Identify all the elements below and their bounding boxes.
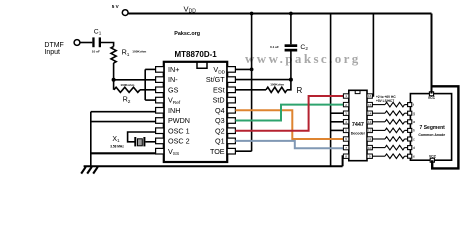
svg-text:Decoder: Decoder bbox=[351, 132, 366, 136]
notch bbox=[197, 62, 207, 68]
pin stub display d bbox=[408, 146, 412, 150]
wire VCC loop around display bbox=[432, 86, 459, 168]
svg-text:Q3: Q3 bbox=[215, 116, 225, 125]
wire INH to ground bbox=[91, 111, 156, 113]
pin stub left 5 INH bbox=[156, 108, 164, 114]
wire node down to R2 bbox=[113, 80, 115, 90]
svg-text:St/GT: St/GT bbox=[206, 75, 225, 84]
svg-text:3.58 MHz: 3.58 MHz bbox=[110, 144, 124, 148]
wire ground vertical bbox=[90, 112, 92, 167]
svg-text:0.1 uF: 0.1 uF bbox=[270, 45, 279, 49]
wire node to IN- bbox=[114, 79, 156, 81]
ground bbox=[81, 167, 86, 174]
wire ground bus bbox=[84, 165, 343, 167]
svg-text:Input: Input bbox=[44, 49, 60, 56]
svg-text:g: g bbox=[413, 112, 415, 116]
wire to VRef bbox=[145, 99, 156, 101]
svg-text:d: d bbox=[413, 146, 415, 150]
svg-text:13: 13 bbox=[368, 120, 372, 124]
resistor segment f bbox=[372, 104, 385, 106]
node VDD supply rail bbox=[128, 13, 431, 15]
wire vertical IN+/IN-/GS/VRef tie bbox=[144, 69, 146, 100]
svg-text:100Kohm: 100Kohm bbox=[120, 83, 134, 87]
wire PWDN to ground bbox=[91, 121, 156, 123]
svg-text:MT8870D-1: MT8870D-1 bbox=[175, 50, 218, 59]
svg-text:10 nF: 10 nF bbox=[92, 50, 100, 54]
pin stub display f bbox=[408, 103, 412, 107]
wire Q4 orange bbox=[235, 110, 343, 139]
pin stub right 14 Q4 bbox=[227, 108, 235, 114]
wire bus to 7447 pin8 bbox=[342, 156, 345, 166]
pin stub 7447-7 bbox=[343, 145, 348, 149]
resistor R2 bbox=[114, 87, 140, 92]
wire input to C1 bbox=[80, 42, 92, 44]
svg-text:ESt: ESt bbox=[213, 85, 225, 94]
resistor R1 bbox=[111, 47, 116, 64]
svg-text:a: a bbox=[413, 120, 415, 124]
pin stub display b bbox=[408, 128, 412, 132]
wire vertical VDD/TOE bbox=[251, 14, 253, 152]
wire R to node bbox=[287, 80, 291, 90]
wire vertical rail to 7447 LT/BI/RBI bbox=[330, 14, 332, 167]
wire C2 to St/GT node bbox=[290, 52, 292, 80]
wire crystal to OSC2 bbox=[145, 141, 155, 143]
svg-text:14: 14 bbox=[368, 111, 372, 115]
pin stub display VCC bottom bbox=[430, 158, 434, 162]
wire to 7447 pin4 bbox=[331, 121, 344, 123]
wire to IN+ bbox=[145, 68, 156, 70]
pin stub left 2 IN- bbox=[156, 77, 164, 83]
node rail junction B bbox=[289, 12, 293, 16]
pin stub 7447-9 bbox=[367, 154, 372, 158]
svg-text:Q1: Q1 bbox=[215, 137, 225, 146]
svg-text:15: 15 bbox=[368, 103, 372, 107]
pin stub display g bbox=[408, 111, 412, 115]
wire R2 to bus bbox=[140, 89, 145, 91]
svg-text:11: 11 bbox=[368, 137, 371, 141]
wire to 7447 pin3 bbox=[331, 112, 344, 114]
svg-text:VCC: VCC bbox=[429, 154, 437, 158]
pin stub 7447-4 bbox=[343, 120, 348, 124]
wire OSC1 loop bbox=[128, 132, 156, 142]
svg-text:PWDN: PWDN bbox=[168, 116, 190, 125]
svg-text:OSC 1: OSC 1 bbox=[168, 126, 190, 135]
pin stub 7447-2 bbox=[343, 102, 348, 106]
svg-text:10: 10 bbox=[368, 146, 372, 150]
svg-text:+5V LS/HCT: +5V LS/HCT bbox=[376, 99, 394, 103]
node St/GT junction bbox=[289, 78, 293, 82]
wire rail drop to display VCC bbox=[431, 14, 433, 94]
pin stub right 13 Q3 bbox=[227, 118, 235, 124]
terminal 5V bbox=[122, 10, 128, 16]
svg-text:b: b bbox=[413, 129, 415, 133]
pin stub right 10 TOE bbox=[227, 148, 235, 154]
pin stub display c bbox=[408, 137, 412, 141]
wire St/GT bbox=[235, 79, 291, 81]
capacitor C2 0.1uF bbox=[285, 44, 298, 47]
capacitor C1 bbox=[92, 37, 94, 47]
svg-text:StD: StD bbox=[213, 96, 225, 105]
pin stub left 4 VREF bbox=[156, 97, 164, 103]
wire VDD pin to rail bbox=[235, 68, 251, 70]
resistor R 100Kohm bbox=[266, 87, 287, 92]
svg-text:100Kohm: 100Kohm bbox=[270, 83, 284, 87]
pin stub 7447-12 bbox=[367, 128, 372, 132]
svg-text:5 V: 5 V bbox=[112, 4, 120, 9]
op IC U2 7447 decoder bbox=[349, 90, 367, 160]
resistor segment c bbox=[372, 138, 385, 140]
pin stub left 7 OSC 1 bbox=[156, 128, 164, 134]
wire vertical C2/steering bbox=[290, 14, 292, 45]
pin stub 7447-16 bbox=[367, 94, 372, 98]
resistor segment d bbox=[372, 147, 385, 149]
wire C1 to R1 bbox=[101, 43, 114, 47]
svg-text:Q2: Q2 bbox=[215, 126, 225, 135]
wire VSS to ground bbox=[91, 152, 156, 154]
pin stub left 8 OSC 2 bbox=[156, 138, 164, 144]
pin stub display VCC top bbox=[429, 92, 433, 96]
wire vertical rail to 7447 VCC pin16 bbox=[372, 14, 373, 97]
pin stub 7447-8 bbox=[343, 154, 348, 158]
pin stub 7447-15 bbox=[367, 102, 372, 106]
wire Q2 red bbox=[235, 96, 343, 131]
node rail junction A bbox=[250, 12, 254, 16]
svg-text:VCC: VCC bbox=[428, 96, 436, 100]
svg-text:INH: INH bbox=[168, 106, 180, 115]
terminal DTMF Input bbox=[74, 40, 80, 46]
pin stub right 15 StD bbox=[227, 97, 235, 103]
resistor segment e bbox=[372, 155, 385, 157]
svg-text:TOE: TOE bbox=[210, 147, 225, 156]
wire to 7447 pin5 bbox=[331, 129, 344, 131]
pin stub 7447-13 bbox=[367, 120, 372, 124]
wire ESt to R bbox=[235, 89, 266, 91]
svg-text:IN+: IN+ bbox=[168, 65, 179, 74]
resistor segment g bbox=[372, 112, 385, 114]
pin stub left 3 GS bbox=[156, 87, 164, 93]
node junction R1/R2/IN- bbox=[112, 78, 116, 82]
pin stub display e bbox=[408, 154, 412, 158]
pin stub right 17 St/GT bbox=[227, 77, 235, 83]
wire TOE bbox=[235, 150, 251, 152]
pin stub 7447-10 bbox=[367, 145, 372, 149]
svg-text:100Kohm: 100Kohm bbox=[132, 50, 146, 54]
svg-text:f: f bbox=[413, 103, 414, 107]
pin stub 7447-6 bbox=[343, 137, 348, 141]
svg-text:Q4: Q4 bbox=[215, 106, 225, 115]
wire to GS bbox=[145, 89, 156, 91]
pin stub 7447-5 bbox=[343, 128, 348, 132]
svg-text:7447: 7447 bbox=[352, 122, 364, 128]
pin stub 7447-11 bbox=[367, 137, 372, 141]
svg-text:e: e bbox=[413, 155, 415, 159]
svg-text:Paksc.org: Paksc.org bbox=[174, 31, 200, 37]
resistor segment a bbox=[372, 121, 385, 123]
pin stub left 1 IN+ bbox=[156, 67, 164, 73]
pin stub 7447-3 bbox=[343, 111, 348, 115]
wire Q3 green bbox=[235, 105, 343, 121]
pin stub right 16 ESt bbox=[227, 87, 235, 93]
svg-text:Common Anode: Common Anode bbox=[418, 133, 445, 137]
wire Q1 blue bbox=[235, 141, 343, 148]
pin stub right 18 VDD bbox=[227, 67, 235, 73]
svg-text:GS: GS bbox=[168, 85, 179, 94]
svg-text:www.paksc.org: www.paksc.org bbox=[245, 51, 361, 66]
pin stub display a bbox=[408, 120, 412, 124]
svg-text:R: R bbox=[297, 86, 303, 95]
pin stub left 9 VSS bbox=[156, 148, 164, 154]
pin stub left 6 PWDN bbox=[156, 118, 164, 124]
pin stub 7447-1 bbox=[343, 94, 348, 98]
svg-text:16: 16 bbox=[368, 94, 372, 98]
node VDD pin junction bbox=[250, 68, 254, 72]
pin stub 7447-14 bbox=[367, 111, 372, 115]
wire R1 to node bbox=[113, 63, 115, 80]
crystal X1 3.58 MHz bbox=[134, 137, 136, 146]
op IC U1 MT8870D-1 bbox=[164, 62, 227, 162]
svg-text:12: 12 bbox=[368, 129, 372, 133]
resistor segment b bbox=[372, 129, 385, 131]
svg-text:c: c bbox=[413, 137, 415, 141]
display 7-segment common anode bbox=[410, 94, 451, 161]
svg-text:7 Segment: 7 Segment bbox=[420, 125, 446, 131]
svg-text:OSC 2: OSC 2 bbox=[168, 137, 190, 146]
svg-text:IN-: IN- bbox=[168, 75, 178, 84]
pin stub right 12 Q2 bbox=[227, 128, 235, 134]
pin stub right 11 Q1 bbox=[227, 138, 235, 144]
